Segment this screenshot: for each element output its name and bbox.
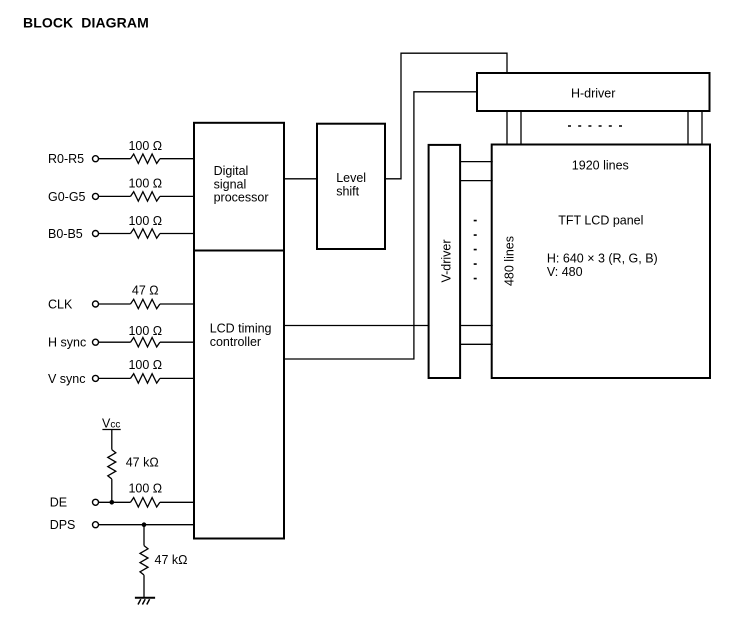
wire resistor R2 to controller xyxy=(160,195,194,197)
block U5 H-driver xyxy=(477,73,710,111)
junction DPS / pull-down xyxy=(142,522,147,527)
svg-text:processor: processor xyxy=(214,191,269,205)
svg-text:47 kΩ: 47 kΩ xyxy=(155,553,188,567)
svg-text:signal: signal xyxy=(214,177,247,191)
svg-text:47 Ω: 47 Ω xyxy=(132,284,159,298)
resistor R7 47 kohm pull-up xyxy=(108,450,116,479)
resistor R2 100 ohm xyxy=(131,192,160,201)
block U6 TFT LCD panel xyxy=(492,145,710,379)
svg-text:H: 640 × 3 (R, G, B): H: 640 × 3 (R, G, B) xyxy=(547,252,658,266)
wire V-driver to panel bus bottom pair xyxy=(460,326,493,345)
resistor R6 100 ohm xyxy=(131,374,160,383)
resistor R8 100 ohm (DE) xyxy=(131,498,160,507)
svg-text:100 Ω: 100 Ω xyxy=(128,324,162,338)
svg-text:100 Ω: 100 Ω xyxy=(128,177,162,191)
block U4 V-driver xyxy=(429,145,461,378)
svg-text:100 Ω: 100 Ω xyxy=(128,214,162,228)
svg-text:V-driver: V-driver xyxy=(440,239,454,282)
wire resistor R6 to controller xyxy=(160,377,194,379)
wire controller to H-driver (left) xyxy=(284,92,477,359)
svg-text:G0-G5: G0-G5 xyxy=(48,190,86,204)
wire resistor R9 to ground xyxy=(143,575,145,597)
terminal B0-B5 xyxy=(93,231,99,237)
wire B0-B5 to resistor xyxy=(99,233,131,235)
block U2 LCD timing controller xyxy=(194,251,284,539)
resistor R9 47 kohm pull-down xyxy=(140,546,148,575)
svg-text:H sync: H sync xyxy=(48,336,86,350)
svg-text:100 Ω: 100 Ω xyxy=(128,481,162,495)
svg-text:480 lines: 480 lines xyxy=(503,236,517,286)
wire resistor R8 to controller xyxy=(160,501,194,503)
junction DE / pull-up xyxy=(110,500,115,505)
wire V sync to resistor xyxy=(99,377,131,379)
wire resistor R1 to controller xyxy=(160,158,194,160)
wire CLK to resistor xyxy=(99,303,131,305)
resistor R5 100 ohm xyxy=(131,338,160,347)
wire resistor R3 to controller xyxy=(160,233,194,235)
svg-text:100 Ω: 100 Ω xyxy=(128,139,162,153)
svg-text:H-driver: H-driver xyxy=(571,87,615,101)
terminal H sync xyxy=(93,339,99,345)
dots between V-driver and panel xyxy=(474,221,477,279)
wire H sync to resistor xyxy=(99,341,131,343)
svg-text:DE: DE xyxy=(50,496,67,510)
terminal V sync xyxy=(93,375,99,381)
svg-text:1920 lines: 1920 lines xyxy=(572,158,629,172)
svg-text:Vcc: Vcc xyxy=(102,416,120,430)
terminal CLK xyxy=(93,301,99,307)
svg-text:V sync: V sync xyxy=(48,372,86,386)
svg-text:TFT LCD panel: TFT LCD panel xyxy=(558,214,643,228)
wire H-driver to panel bus left pair xyxy=(507,111,521,146)
wire Level shift to H-driver (top) xyxy=(385,53,507,179)
svg-text:Level: Level xyxy=(336,171,366,185)
svg-text:BLOCK DIAGRAM: BLOCK DIAGRAM xyxy=(23,14,149,30)
dots between H-driver and panel xyxy=(568,125,622,127)
wire Vcc to resistor R7 xyxy=(111,430,113,450)
wire resistor R7 to DE node xyxy=(111,479,113,502)
svg-text:controller: controller xyxy=(210,335,261,349)
block U3 Level shift xyxy=(317,124,385,249)
wire DE terminal to resistor xyxy=(99,501,131,503)
svg-text:100 Ω: 100 Ω xyxy=(128,358,162,372)
wire DPS node to resistor R9 xyxy=(143,525,145,546)
wire controller to V-driver xyxy=(284,325,429,327)
ground xyxy=(135,598,155,605)
wire R0-R5 to resistor xyxy=(99,158,131,160)
wire DPS to controller xyxy=(99,524,194,526)
terminal DPS xyxy=(93,522,99,528)
resistor R3 100 ohm xyxy=(131,229,160,238)
resistor R4 47 ohm xyxy=(131,299,160,308)
terminal G0-G5 xyxy=(93,193,99,199)
resistor R1 100 ohm xyxy=(131,154,160,163)
svg-text:DPS: DPS xyxy=(50,518,76,532)
wire DSP to Level shift xyxy=(285,178,317,180)
svg-text:R0-R5: R0-R5 xyxy=(48,152,84,166)
svg-text:V: 480: V: 480 xyxy=(547,265,583,279)
wire resistor R4 to controller xyxy=(160,303,194,305)
wire G0-G5 to resistor xyxy=(99,195,131,197)
block U1 Digital signal processor xyxy=(194,123,284,251)
svg-text:shift: shift xyxy=(336,185,359,199)
wire V-driver to panel bus top pair xyxy=(460,162,493,181)
wire resistor R5 to controller xyxy=(160,341,194,343)
svg-text:47 kΩ: 47 kΩ xyxy=(126,455,159,469)
svg-text:Digital: Digital xyxy=(214,164,249,178)
terminal DE xyxy=(93,499,99,505)
svg-text:LCD timing: LCD timing xyxy=(210,322,272,336)
wire H-driver to panel bus right pair xyxy=(688,111,702,146)
terminal R0-R5 xyxy=(93,156,99,162)
svg-text:CLK: CLK xyxy=(48,297,73,311)
svg-text:B0-B5: B0-B5 xyxy=(48,227,83,241)
